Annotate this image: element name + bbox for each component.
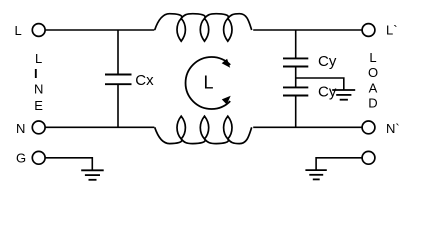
label LINE (vertical) (34, 51, 43, 113)
svg-text:N: N (16, 121, 25, 136)
svg-text:A: A (369, 81, 378, 96)
wire: choke bottom winding to N' terminal (253, 126, 361, 128)
capacitor Cy upper plate 2 (283, 66, 308, 68)
terminal N (32, 121, 45, 134)
ground symbol (Cy midpoint) (332, 90, 355, 100)
capacitor Cy lower plate 2 (283, 95, 308, 97)
wire: N terminal to choke bottom winding (46, 126, 155, 128)
flux arrowhead (bottom, counterclockwise) (222, 96, 231, 105)
wire: L terminal to choke top winding (46, 29, 155, 31)
flux arrowhead (top, clockwise) (222, 59, 231, 68)
svg-text:G: G (16, 151, 26, 166)
svg-text:L`: L` (386, 23, 398, 38)
svg-text:E: E (34, 98, 43, 113)
wire: top rail to Cy upper (295, 30, 297, 58)
inductor L top winding (common-mode choke) (155, 14, 252, 42)
ground symbol (G, input side) (81, 170, 104, 180)
wire: choke top winding to L' terminal (253, 29, 361, 31)
svg-text:I: I (34, 66, 38, 81)
svg-text:Cy: Cy (318, 53, 337, 70)
inductor L bottom winding (common-mode choke) (155, 116, 252, 144)
wire: between Cy upper and Cy lower (295, 67, 297, 86)
svg-text:D: D (368, 96, 377, 111)
svg-text:Cx: Cx (135, 72, 154, 89)
label LOAD (vertical) (368, 50, 378, 111)
terminal G' (unlabeled, bottom right) (362, 151, 375, 164)
svg-text:L: L (369, 50, 376, 65)
wire: G terminal to earth ground (46, 158, 93, 170)
wire: Cx to bottom rail (117, 85, 119, 127)
svg-text:O: O (368, 65, 378, 80)
terminal N' (362, 121, 375, 134)
svg-text:L: L (35, 51, 42, 66)
svg-text:Cy: Cy (318, 84, 337, 101)
capacitor Cy lower plate 1 (283, 86, 308, 88)
svg-text:L: L (15, 23, 22, 38)
svg-text:N: N (34, 82, 43, 97)
circulating-flux arc around L (186, 57, 231, 109)
wire: top rail to Cx (117, 30, 119, 74)
terminal L' (362, 24, 375, 37)
wire: Cy midpoint to earth ground (296, 78, 344, 90)
capacitor Cy upper plate 1 (283, 57, 308, 59)
wire: output-side earth ground to bottom-right terminal (316, 158, 362, 170)
capacitor Cx plate 1 (105, 74, 132, 76)
svg-text:N`: N` (386, 121, 400, 136)
wire: Cy lower to bottom rail (295, 96, 297, 127)
terminal G (32, 151, 45, 164)
svg-text:L: L (204, 73, 214, 93)
capacitor Cx plate 2 (105, 83, 132, 85)
terminal L (32, 24, 45, 37)
ground symbol (output side) (305, 170, 326, 179)
